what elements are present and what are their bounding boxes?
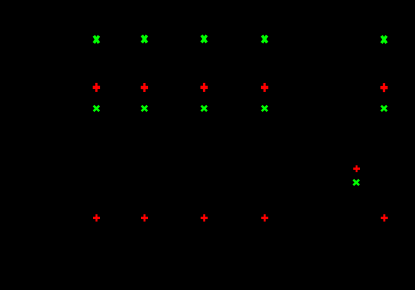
green X marker top row col D — [262, 36, 267, 43]
red plus marker bottom row col E — [381, 214, 388, 221]
red plus marker mid-right — [353, 165, 360, 172]
green X marker top row col B — [142, 35, 147, 42]
green X marker third row col B — [142, 106, 148, 112]
green X marker top row col A — [94, 36, 99, 43]
red plus marker second row col C — [200, 83, 207, 92]
green X marker top row col C — [202, 35, 207, 42]
red plus marker second row col D — [261, 83, 268, 92]
red plus marker bottom row col D — [261, 214, 268, 221]
green X marker third row col E — [381, 106, 387, 112]
green X marker third row col C — [201, 106, 207, 112]
red plus marker second row col B — [141, 83, 148, 92]
green X marker mid-right — [353, 180, 359, 186]
red plus marker bottom row col C — [201, 214, 208, 221]
red plus marker second row col A — [93, 83, 100, 92]
green X marker third row col A — [94, 106, 100, 112]
green X marker third row col D — [262, 106, 268, 112]
red plus marker second row col E — [380, 83, 387, 92]
green X marker top row col E — [381, 36, 386, 43]
red plus marker bottom row col B — [141, 214, 148, 221]
red plus marker bottom row col A — [93, 214, 100, 221]
